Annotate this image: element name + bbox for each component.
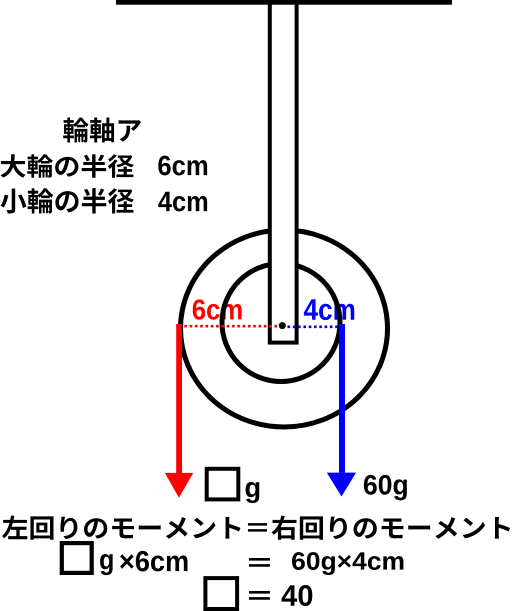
blue force arrow (right, on small wheel) xyxy=(327,324,356,497)
label 60g (blue side weight) xyxy=(364,475,407,500)
text 大輪の半径 xyxy=(1,154,134,178)
answer value 40 xyxy=(282,585,313,606)
text g (line 2) xyxy=(100,554,113,575)
text ×6cm xyxy=(120,551,187,572)
equation line 左回りのモーメント＝右回りのモーメント xyxy=(2,516,510,540)
answer box in equation line 2 xyxy=(62,543,92,573)
answer box beside red arrow xyxy=(207,469,239,500)
axle center dot xyxy=(279,322,286,329)
text 60g×4cm xyxy=(292,552,403,575)
answer box in equation line 3 xyxy=(205,578,237,609)
value 6cm (header) xyxy=(158,156,207,176)
inner wheel (small wheel / axle, radius 4cm) xyxy=(222,264,340,382)
value 4cm (header) xyxy=(158,192,207,212)
axle rod (vertical support shaft) xyxy=(270,0,297,343)
red dotted radius line (6cm) xyxy=(179,325,280,328)
equals sign (line 3) xyxy=(249,591,270,600)
equals sign (line 2) xyxy=(249,558,270,567)
radius label 6cm (red, large wheel) xyxy=(193,299,242,319)
ceiling bar xyxy=(116,0,452,5)
red force arrow (left, on large wheel) xyxy=(165,324,193,498)
radius label 4cm (blue, small wheel) xyxy=(304,299,354,320)
outer wheel (large wheel, radius 6cm) xyxy=(181,230,388,427)
blue dotted radius line (4cm) xyxy=(288,325,342,328)
label g (unit for answer box) xyxy=(246,482,260,503)
title 輪軸ア xyxy=(63,118,141,143)
text 小輪の半径 xyxy=(1,188,134,213)
